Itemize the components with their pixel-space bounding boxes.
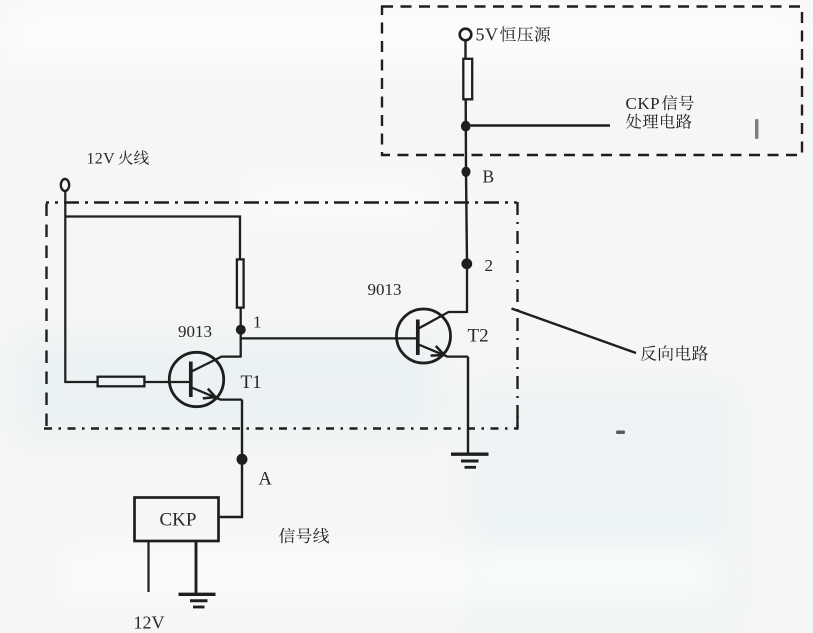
svg-text:1: 1 <box>253 313 262 332</box>
dashed box: 5V supply + CKP signal processing circuit <box>382 7 802 156</box>
wire: node 1 to T2 base <box>241 337 418 339</box>
junction dot at CKP tap <box>461 121 471 132</box>
wire: B down to node 2 <box>466 172 467 265</box>
wire: resistor to node B <box>465 100 468 172</box>
wire: tap to CKP processing circuit <box>466 124 611 127</box>
resistor (base, horizontal) <box>98 377 145 387</box>
svg-text:12V: 12V <box>134 613 165 633</box>
svg-text:9013: 9013 <box>178 322 212 341</box>
wire: T2 emitter down <box>467 357 469 454</box>
svg-text:9013: 9013 <box>368 280 402 299</box>
node B <box>462 167 471 177</box>
node A <box>237 454 248 465</box>
svg-text:CKP: CKP <box>626 94 661 113</box>
svg-text:T2: T2 <box>468 326 489 347</box>
wire: CKP 12V lead <box>147 541 149 592</box>
node 2 <box>461 258 472 269</box>
svg-text:2: 2 <box>485 256 494 275</box>
scan speck <box>616 431 625 435</box>
wire: inner top rail <box>65 217 240 260</box>
scan artifact dash <box>755 119 759 139</box>
terminal: 12V hot wire <box>61 179 69 191</box>
svg-text:A: A <box>259 470 273 490</box>
svg-text:B: B <box>483 167 495 187</box>
wire: terminal to resistor <box>464 40 466 59</box>
label 信号线 <box>279 528 295 544</box>
wire: node 2 down to T2 collector <box>466 264 468 313</box>
wire: resistor to T1 base <box>146 381 191 383</box>
resistor (collector load, vertical) <box>237 259 244 307</box>
wire: resistor to node 1 column <box>240 309 242 358</box>
svg-text:CKP: CKP <box>160 510 197 531</box>
wire: T1 emitter down to CKP <box>219 400 243 517</box>
CKP sensor box <box>135 498 219 542</box>
transistor T2 (9013 NPN) <box>397 309 469 363</box>
label 反向电路 <box>641 346 657 361</box>
wire: 12V terminal down left side then to base resistor <box>65 190 97 382</box>
resistor (pull-up, vertical) <box>463 59 472 100</box>
svg-text:T1: T1 <box>241 372 262 393</box>
terminal: 5V supply <box>460 29 472 41</box>
transistor T1 (9013 NPN) <box>169 352 242 406</box>
svg-text:12V: 12V <box>87 151 116 168</box>
pointer line to inverter box <box>512 309 637 354</box>
ground (T2 emitter) <box>451 454 489 467</box>
ground (CKP) <box>179 594 216 607</box>
svg-text:5V: 5V <box>476 25 499 45</box>
dashed box: inverter circuit (反向电路) <box>46 201 517 204</box>
wire: CKP ground lead <box>195 541 198 594</box>
node 1 <box>236 325 246 335</box>
